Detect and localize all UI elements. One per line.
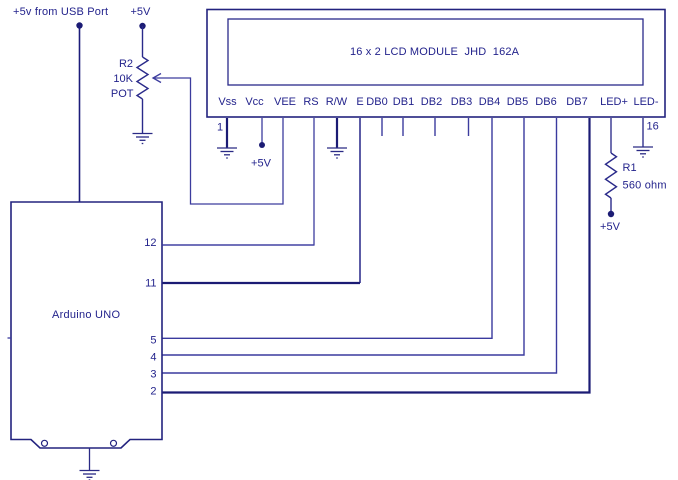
svg-text:Vcc: Vcc [245, 96, 264, 108]
svg-text:R/W: R/W [326, 96, 348, 108]
wire DB6 to Arduino pin 3 [162, 118, 557, 373]
ground below Vss [217, 148, 237, 158]
svg-text:Vss: Vss [218, 96, 237, 108]
left side pin stub [8, 337, 12, 339]
mounting hole left [42, 440, 48, 446]
svg-text:DB4: DB4 [479, 96, 500, 108]
ground below Arduino [80, 471, 100, 480]
svg-text:R2: R2 [119, 58, 133, 70]
svg-text:1: 1 [217, 122, 223, 134]
Arduino UNO board outline [11, 202, 162, 448]
svg-text:5: 5 [150, 335, 156, 347]
svg-text:VEE: VEE [274, 96, 296, 108]
resistor R1 560 ohm body [606, 153, 617, 198]
wire DB4 to Arduino pin 5 [162, 118, 492, 338]
wire Arduino pin 12 [162, 244, 314, 246]
wire DB0 pin stub [381, 118, 383, 136]
svg-text:+5v from USB Port: +5v from USB Port [13, 6, 108, 18]
svg-text:LED+: LED+ [600, 96, 628, 108]
wire R1 bottom lead [610, 198, 612, 212]
svg-text:E: E [356, 96, 363, 108]
svg-text:R1: R1 [623, 162, 637, 174]
svg-text:DB3: DB3 [451, 96, 472, 108]
LCD module outer box [207, 10, 665, 118]
wire Vcc pin stub [261, 118, 263, 145]
wire E pin vertical [359, 118, 361, 283]
wire R/W pin stub [336, 118, 338, 148]
wire LED+ pin to R1 [610, 118, 612, 153]
ground below R2 [133, 134, 153, 144]
svg-text:3: 3 [150, 369, 156, 381]
junction dot +5V R2 [139, 23, 145, 29]
wire +5V to R2 top [142, 26, 144, 57]
ground below R/W [327, 148, 347, 158]
wire RS pin to Arduino pin 12 [162, 118, 314, 245]
svg-text:DB1: DB1 [393, 96, 414, 108]
svg-text:RS: RS [303, 96, 318, 108]
mounting hole right [111, 440, 117, 446]
wire Arduino ground lead [89, 448, 91, 471]
svg-text:Arduino UNO: Arduino UNO [52, 309, 120, 321]
wire LED- pin stub [642, 118, 644, 147]
wire DB5 to Arduino pin 4 [162, 118, 524, 355]
junction dot USB +5v [76, 22, 82, 28]
wire DB1 pin stub [402, 118, 404, 136]
wiper arrow of R2 pot [153, 74, 161, 83]
LCD display inner box [228, 19, 643, 85]
junction dot Vcc +5V [259, 142, 265, 148]
svg-text:12: 12 [144, 237, 156, 249]
svg-text:560 ohm: 560 ohm [623, 180, 667, 192]
svg-text:+5V: +5V [131, 6, 152, 18]
svg-text:2: 2 [150, 386, 156, 398]
svg-text:POT: POT [111, 88, 134, 100]
wire Arduino pin 11 to E [162, 282, 360, 284]
svg-text:+5V: +5V [600, 221, 621, 233]
wire USB +5v to Arduino top [79, 26, 81, 203]
junction dot R1 +5V [608, 211, 614, 217]
ground below LED- [633, 147, 653, 157]
wire R2 bottom lead [142, 99, 144, 134]
svg-text:10K: 10K [113, 73, 133, 85]
svg-text:16 x 2 LCD MODULE JHD 162A: 16 x 2 LCD MODULE JHD 162A [350, 46, 520, 58]
wire pot wiper to LCD VEE pin [153, 78, 283, 204]
svg-text:LED-: LED- [633, 96, 658, 108]
wire Vss pin stub [226, 118, 228, 148]
wire DB7 to Arduino pin 2 [162, 118, 590, 393]
svg-text:4: 4 [150, 351, 156, 363]
svg-text:DB6: DB6 [535, 96, 556, 108]
svg-text:DB0: DB0 [366, 96, 387, 108]
svg-text:+5V: +5V [251, 158, 272, 170]
wire DB3 pin stub [468, 118, 470, 136]
svg-text:11: 11 [145, 278, 156, 290]
wire DB2 pin stub [434, 118, 436, 136]
svg-text:DB5: DB5 [507, 96, 528, 108]
svg-text:DB2: DB2 [421, 96, 442, 108]
svg-text:16: 16 [647, 121, 659, 133]
resistor R2 10K POT body [137, 57, 148, 99]
svg-text:DB7: DB7 [566, 96, 587, 108]
